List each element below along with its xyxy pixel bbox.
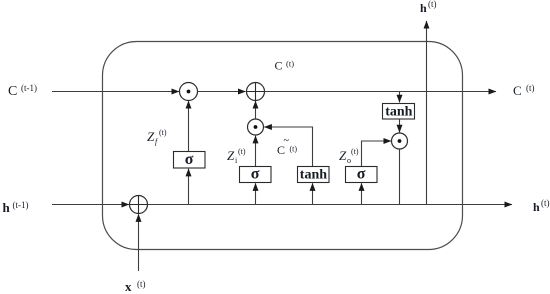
wire sigma-f to forget multiply [188, 101, 190, 151]
svg-text:Z: Z [147, 129, 155, 144]
label C(t) right [513, 83, 535, 98]
wire tanh candidate to input multiply [264, 127, 312, 166]
wire C(t-1) input [52, 91, 179, 93]
svg-text:C: C [275, 59, 283, 73]
multiply node output-gate [392, 133, 408, 149]
svg-text:h: h [420, 1, 427, 15]
wire C-line branch down to tanh output box [399, 92, 401, 103]
wire sigma-o to output multiply [362, 141, 392, 167]
svg-text:Z: Z [339, 148, 347, 163]
svg-text:σ: σ [185, 151, 194, 168]
svg-text:(t): (t) [238, 147, 246, 156]
wire sigma-i to input multiply [255, 136, 257, 166]
LSTM cell body (rounded rectangle) [103, 42, 463, 250]
svg-text:(t): (t) [541, 198, 550, 208]
svg-text:(t): (t) [526, 83, 535, 93]
wire tanh output to output multiply [399, 119, 401, 132]
svg-text:(t): (t) [286, 59, 294, 69]
label x(t) [125, 279, 146, 294]
svg-text:(t): (t) [159, 128, 167, 137]
tanh box candidate [298, 167, 330, 183]
svg-text:(t): (t) [137, 279, 146, 289]
svg-text:tanh: tanh [300, 167, 327, 182]
svg-text:σ: σ [251, 166, 260, 183]
wire h(t-1) input [52, 204, 129, 206]
label Zi(t) [227, 147, 246, 165]
sigma box input gate [240, 166, 272, 183]
wire output multiply down to h-line [399, 149, 401, 205]
wire x(t) input [138, 214, 140, 271]
svg-text:x: x [125, 279, 132, 294]
multiply node input-gate [248, 119, 264, 135]
svg-text:(t): (t) [290, 145, 298, 154]
svg-text:Z: Z [227, 148, 235, 163]
svg-text:(t-1): (t-1) [21, 83, 37, 93]
label C(t-1) [8, 83, 37, 99]
svg-text:tanh: tanh [385, 104, 412, 119]
wire h(t) branch up [426, 21, 428, 205]
label Zo(t) [339, 147, 359, 165]
wire h-line to sigma-o [361, 183, 363, 204]
wire h-line to sigma-i [255, 183, 257, 204]
add node [247, 83, 265, 101]
svg-text:(t): (t) [351, 147, 359, 156]
sigma box forget gate [174, 151, 206, 168]
multiply node forget-gate [180, 83, 198, 101]
label h(t-1) [3, 200, 29, 215]
wire h-line to tanh candidate [312, 183, 314, 204]
svg-text:(t-1): (t-1) [13, 200, 29, 210]
label C-tilde(t) [277, 136, 297, 158]
svg-text:(t): (t) [428, 0, 437, 9]
sigma box output gate [346, 166, 378, 183]
wire h-line main [148, 204, 513, 206]
svg-text:C: C [513, 83, 522, 98]
svg-text:o: o [347, 156, 351, 165]
wire h-line to sigma-f [188, 169, 190, 205]
svg-text:C: C [8, 84, 17, 99]
label h(t) top [420, 0, 437, 15]
svg-text:σ: σ [357, 166, 366, 183]
wire C(t) output [264, 91, 496, 93]
wire input-gate multiply to add node [255, 101, 257, 119]
wire multiply to add [198, 91, 246, 93]
tanh box output [383, 104, 415, 120]
label h(t) right [533, 198, 550, 214]
add node h+x [130, 196, 148, 214]
label C(t) above add node [275, 59, 295, 73]
label Zf(t) [147, 128, 167, 146]
svg-text:h: h [533, 200, 540, 214]
svg-text:h: h [3, 200, 11, 215]
